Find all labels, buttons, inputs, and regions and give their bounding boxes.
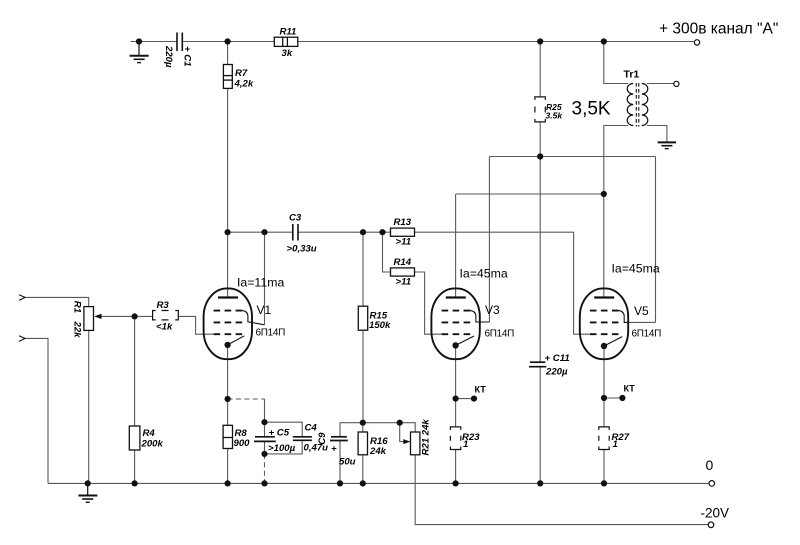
wire C9 top lead xyxy=(339,423,341,437)
wire R21 wiper arm xyxy=(400,423,406,442)
svg-text:C9: C9 xyxy=(317,432,328,445)
svg-text:R7: R7 xyxy=(235,68,248,79)
resistor R15 xyxy=(358,306,367,330)
junction R4 top node xyxy=(132,313,138,319)
resistor R27 (dashed) xyxy=(599,427,609,450)
tube V5 grid g2 xyxy=(590,321,619,323)
svg-text:Tr1: Tr1 xyxy=(624,69,640,81)
wire dashed link cathode node to C5 top xyxy=(228,398,265,400)
wire bottom 0V rail xyxy=(48,482,709,484)
junction rail C11 xyxy=(537,480,543,486)
wire R13 output to V5 grid xyxy=(415,232,590,334)
wire V3 anode column xyxy=(455,194,457,298)
svg-text:C4: C4 xyxy=(305,423,318,434)
transformer Tr1 core xyxy=(636,83,639,127)
resistor R21 (potentiometer) xyxy=(411,432,420,455)
svg-text:3.5k: 3.5k xyxy=(546,111,564,121)
tube V3 screen exit path xyxy=(470,311,489,322)
junction rail R16 xyxy=(360,480,366,486)
tube V3 grid g3 xyxy=(442,310,471,312)
wire screen bus horizontal xyxy=(489,156,655,158)
svg-text:4,2k: 4,2k xyxy=(234,79,254,90)
wire V3 cathode to R23 xyxy=(455,348,457,427)
resistor R14 xyxy=(391,268,415,276)
tube V1 grid g3 xyxy=(214,310,243,312)
tube V3 anode plate xyxy=(446,296,466,298)
wire C5 bottom lead xyxy=(264,442,266,454)
wire V5 cathode to R27 xyxy=(603,348,605,427)
junction R16 top node xyxy=(360,420,366,426)
wire C11 top lead xyxy=(539,157,541,363)
tube V1 grid g2 xyxy=(214,321,243,323)
wire C9 bottom lead xyxy=(339,441,341,484)
tube V3 cathode dot xyxy=(452,342,458,348)
tube V5 grid g3 xyxy=(590,310,619,312)
tube V5 anode plate xyxy=(594,296,614,298)
wire R8 bottom xyxy=(227,449,229,484)
svg-text:220µ: 220µ xyxy=(163,45,174,68)
wire R14 branch down xyxy=(383,232,391,272)
junction C5 top xyxy=(261,419,267,425)
junction R15 top node xyxy=(360,229,366,235)
wire V5 test point KT xyxy=(604,397,622,399)
tube V1 screen exit path xyxy=(242,311,264,325)
capacitor C5 xyxy=(254,437,276,442)
transformer Tr1 primary winding xyxy=(627,84,633,126)
junction rail C9 xyxy=(337,480,343,486)
terminal secondary output xyxy=(674,81,679,86)
tube V1 grid g1 xyxy=(214,333,243,335)
svg-text:Ia=11ma: Ia=11ma xyxy=(237,276,284,290)
wire top +300V rail right segment xyxy=(182,41,694,43)
junction rail C5 xyxy=(261,480,267,486)
resistor R8 xyxy=(223,425,232,448)
wire transformer secondary bottom to ground xyxy=(647,126,667,143)
wire C4 bottom loop xyxy=(265,440,303,454)
input jack 2 xyxy=(19,336,25,342)
tube V5 grid g1 xyxy=(590,333,619,335)
junction rail R1 xyxy=(85,480,91,486)
svg-text:>0,33u: >0,33u xyxy=(287,244,317,255)
wire input 1 to R1 top xyxy=(25,297,89,306)
tube V1 envelope xyxy=(204,288,252,359)
resistor R23 (dashed) xyxy=(450,427,460,450)
resistor R25 (dashed) xyxy=(535,97,545,122)
svg-text:1: 1 xyxy=(463,439,468,450)
svg-text:-20V: -20V xyxy=(701,506,730,521)
svg-text:Ia=45ma: Ia=45ma xyxy=(460,267,508,281)
junction rail R27 xyxy=(601,480,607,486)
wire C4 parallel loop xyxy=(265,422,303,436)
junction anode link at Tr1 xyxy=(601,191,607,197)
svg-text:+: + xyxy=(331,444,337,455)
transformer Tr1 secondary winding xyxy=(642,84,648,126)
junction top rail at Tr1 xyxy=(601,38,607,44)
wire R15 column bottom to bias node xyxy=(362,330,364,423)
svg-text:>11: >11 xyxy=(396,277,412,288)
svg-text:200k: 200k xyxy=(141,439,164,450)
tube V3 cathode slant xyxy=(456,336,474,345)
svg-text:R1: R1 xyxy=(71,301,82,313)
svg-text:>100µ: >100µ xyxy=(268,443,296,454)
tube V5 screen exit path xyxy=(619,311,628,323)
wire R23 bottom xyxy=(455,450,457,484)
junction C5 bottom xyxy=(261,451,267,457)
svg-text:220µ: 220µ xyxy=(545,367,568,378)
wire R1 bottom to ground rail xyxy=(88,330,90,483)
wire R25 bottom to screen node xyxy=(539,122,541,157)
svg-text:КТ: КТ xyxy=(475,385,487,395)
svg-text:3k: 3k xyxy=(282,48,293,59)
junction screen bus at R25 xyxy=(537,153,543,159)
resistor R4 xyxy=(129,426,140,450)
wire dashed C5 bottom to rail xyxy=(264,454,266,484)
junction V1 cathode node xyxy=(225,396,231,402)
svg-text:50u: 50u xyxy=(339,457,356,468)
terminal +300V xyxy=(694,40,699,45)
svg-text:V3: V3 xyxy=(485,303,500,317)
junction rail R8 xyxy=(225,480,231,486)
junction V3 cathode KT xyxy=(453,396,459,402)
wire R27 bottom xyxy=(603,450,605,484)
ground (input/0V rail) xyxy=(78,483,97,502)
wire R15 column top xyxy=(362,232,364,306)
tube V3 grid g2 xyxy=(442,321,471,323)
wire V5 screen horizontal into tube xyxy=(628,321,656,323)
wire anode link V3-V5 xyxy=(456,193,604,195)
resistor R11 xyxy=(274,37,298,46)
svg-text:R21 24k: R21 24k xyxy=(421,419,432,456)
wire transformer primary bottom to V5 anode xyxy=(604,126,628,298)
junction R13/R14 node xyxy=(379,229,385,235)
capacitor C1 xyxy=(177,33,182,52)
svg-text:150k: 150k xyxy=(369,320,391,331)
wire R14 output to V3 grid xyxy=(415,272,442,334)
svg-text:R13: R13 xyxy=(394,217,412,228)
capacitor C9 (50u) xyxy=(330,437,348,441)
svg-text:R3: R3 xyxy=(157,300,170,311)
resistor R1 (potentiometer) xyxy=(84,307,94,331)
wire rail to transformer primary top xyxy=(604,42,628,84)
tube V3 grid g1 xyxy=(442,333,471,335)
wire transformer secondary top to output xyxy=(647,83,674,85)
tube V5 envelope xyxy=(580,288,628,359)
junction V5 cathode KT xyxy=(601,395,607,401)
capacitor C11 xyxy=(529,362,546,367)
capacitor C3 xyxy=(293,224,298,241)
svg-text:V5: V5 xyxy=(634,304,649,318)
svg-text:22k: 22k xyxy=(71,321,82,339)
wire R16 bottom lead xyxy=(362,455,364,484)
wire V1 cathode to R8 xyxy=(227,348,229,425)
junction R21 top node xyxy=(397,420,403,426)
svg-text:3,5K: 3,5K xyxy=(572,99,611,120)
wire R4 bottom xyxy=(134,450,136,483)
ground (top left supply) xyxy=(130,44,149,63)
wire R16 top lead xyxy=(362,423,364,432)
junction screen strap node xyxy=(261,229,267,235)
tube V3 envelope xyxy=(431,288,479,359)
tube V5 cathode dot xyxy=(601,343,607,349)
svg-text:C3: C3 xyxy=(289,213,302,224)
svg-text:КТ: КТ xyxy=(624,384,636,394)
junction rail R4 xyxy=(132,480,138,486)
junction top rail at R7 xyxy=(225,38,231,44)
wire R1 wiper to R3 xyxy=(96,315,153,317)
svg-text:+ C11: + C11 xyxy=(545,353,570,364)
wire R25 top lead xyxy=(539,42,541,97)
wire R21 bottom to -20V rail xyxy=(415,455,708,525)
wire R4 column xyxy=(134,316,136,426)
svg-text:R11: R11 xyxy=(280,27,297,38)
svg-text:0: 0 xyxy=(706,457,714,473)
svg-text:900: 900 xyxy=(234,438,251,449)
svg-text:1: 1 xyxy=(613,439,618,450)
capacitor C4 xyxy=(293,437,312,441)
wire R21 top lead xyxy=(400,423,416,432)
junction V1 anode node xyxy=(225,229,231,235)
R1 wiper arrowhead xyxy=(94,314,102,319)
wire input 2 down to ground rail xyxy=(25,338,48,483)
wire C3 node line (V1 anode to R13) xyxy=(228,231,293,233)
wire bias node horizontal (C9 to R21) xyxy=(340,422,400,424)
svg-text:R4: R4 xyxy=(143,428,156,439)
svg-text:6П14П: 6П14П xyxy=(485,329,515,340)
svg-text:6П14П: 6П14П xyxy=(632,329,662,340)
svg-text:6П14П: 6П14П xyxy=(256,328,286,339)
R21 wiper arrowhead xyxy=(403,439,410,444)
wire C3 right to R13 xyxy=(298,231,391,233)
svg-text:<1k: <1k xyxy=(156,322,173,333)
wire V3 test point KT xyxy=(456,398,474,400)
svg-text:+ C1: + C1 xyxy=(182,46,193,67)
svg-text:>11: >11 xyxy=(396,237,412,248)
svg-text:Ia=45ma: Ia=45ma xyxy=(612,262,660,276)
input jack 1 xyxy=(19,295,25,301)
resistor R3 (dashed) xyxy=(153,311,179,320)
svg-text:+ 300в канал "А": + 300в канал "А" xyxy=(659,21,778,38)
svg-text:V1: V1 xyxy=(257,303,272,317)
junction top rail at R25 xyxy=(537,38,543,44)
wire V5 screen riser xyxy=(655,157,657,323)
resistor R7 xyxy=(223,65,232,89)
svg-text:+ C5: + C5 xyxy=(269,428,290,439)
test point KT V5 xyxy=(619,395,625,401)
ground (transformer secondary) xyxy=(658,142,676,148)
wire top +300V rail left segment xyxy=(131,41,177,43)
wire R7 column (rail to V1 anode) xyxy=(227,42,229,298)
junction rail R23 xyxy=(453,480,459,486)
wire V3 screen riser xyxy=(488,157,490,323)
terminal 0 xyxy=(709,481,715,487)
resistor R16 xyxy=(358,432,367,455)
tube V1 cathode dot xyxy=(224,342,230,348)
resistor R13 xyxy=(391,228,415,236)
tube V1 cathode slant xyxy=(228,336,245,345)
wire C11 bottom lead xyxy=(539,367,541,484)
wire R3 output to V1 grid xyxy=(178,316,213,334)
junction top rail at ground xyxy=(136,38,142,44)
test point KT V3 xyxy=(471,396,477,402)
terminal -20V xyxy=(708,522,714,528)
wire V1 screen strap down from anode node xyxy=(264,232,266,324)
svg-text:R14: R14 xyxy=(394,257,412,268)
tube V5 cathode slant xyxy=(604,337,622,346)
svg-text:24k: 24k xyxy=(369,446,387,457)
tube V1 anode plate xyxy=(218,296,238,298)
wire C5 top lead xyxy=(264,399,266,436)
